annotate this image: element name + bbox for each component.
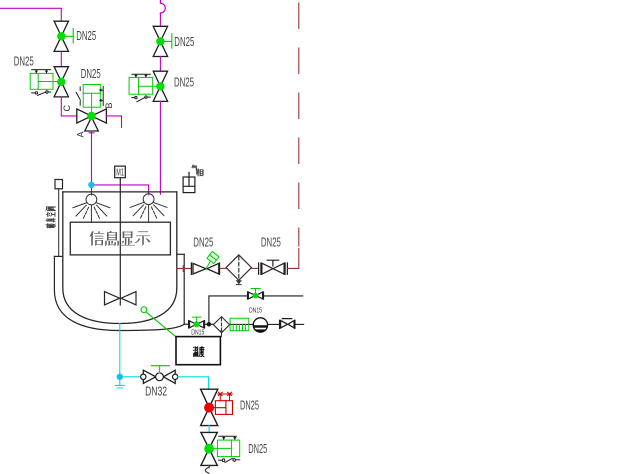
wire magenta stub right of three-way	[106, 116, 121, 128]
limit-switch marks above V2 box	[32, 70, 51, 74]
svg-text:DN15: DN15	[191, 327, 204, 336]
wire magenta feed from left edge	[0, 8, 61, 21]
node junction dot (cyan)	[117, 374, 123, 380]
wire black	[296, 323, 304, 325]
pipe cyan to DN32 valve	[123, 376, 141, 378]
svg-text:A: A	[76, 131, 86, 137]
svg-text:DN25: DN25	[76, 28, 96, 43]
wire	[159, 57, 161, 72]
valve DN32 (flanged ball valve, open circle)	[143, 370, 175, 383]
svg-text:DN25: DN25	[193, 235, 213, 250]
svg-text:DN25: DN25	[261, 235, 281, 250]
svg-text:DN25: DN25	[174, 34, 194, 49]
wire dark-red to riser	[288, 249, 299, 269]
leader circle on vessel bottom	[141, 307, 147, 313]
valve VB DN25 (manual globe with T handle)	[259, 260, 288, 274]
switch contact below VG box	[219, 458, 240, 462]
solenoid actuator box of valve V4	[129, 77, 157, 94]
svg-text:M1: M1	[116, 168, 124, 179]
vessel jacket	[54, 254, 184, 330]
vacuum-breaker nozzle box top-left	[55, 180, 63, 189]
limit-switch marks right of three-way box	[99, 87, 103, 106]
pipe black top loop	[209, 296, 303, 324]
pipe cyan to bottom valves	[178, 377, 209, 389]
svg-text:DN25: DN25	[240, 397, 259, 412]
heater strainer (green striped box)	[230, 318, 249, 331]
solenoid marks above VR box (red)	[218, 392, 232, 401]
wire dark-red	[252, 267, 259, 269]
wire green stub below valve VG	[208, 465, 210, 468]
svg-text:B: B	[104, 102, 114, 108]
valve VG DN25 (vertical bowtie, green ball)	[201, 432, 217, 465]
svg-text:DN25: DN25	[81, 66, 101, 81]
valve V3 DN25 (vertical bowtie, green ball)	[153, 26, 167, 56]
switch contact below V2 box	[32, 91, 51, 96]
limit-switch marks above VG box	[219, 436, 237, 439]
valve G1 (green ball with T handle)	[248, 292, 264, 299]
solenoid actuator box of three-way valve	[83, 85, 100, 112]
pipe break squiggle	[160, 0, 165, 14]
svg-text:DN25: DN25	[14, 53, 34, 68]
valve V5 (wafer valve with top bar)	[280, 319, 295, 329]
valve V3 handle tick	[164, 34, 172, 48]
svg-text:DN25: DN25	[174, 75, 194, 90]
wire magenta down into vessel	[159, 101, 161, 194]
limit-switch marks above V4 box	[132, 74, 151, 77]
label 气相	[192, 165, 198, 172]
wire	[61, 97, 77, 116]
solenoid actuator box of valve VG	[214, 440, 240, 457]
wire	[60, 51, 62, 66]
valve V4 DN25 (vertical bowtie, green ball)	[153, 71, 167, 101]
three-way valve TV1 (horizontal bowtie + bottom port, green ball)	[77, 109, 107, 131]
jacket inlet pipe (left)	[58, 189, 60, 257]
solenoid actuator box of valve V2	[30, 73, 57, 89]
wire black	[268, 323, 280, 325]
flow sight glass (circle, dark lower half with band)	[253, 318, 268, 333]
valve VA DN25 (horizontal bowtie with green diamond actuator)	[191, 263, 219, 274]
sprayer nozzle left	[73, 194, 110, 222]
vertical label 破真空阀	[46, 224, 56, 229]
switch contact left of three-way box	[76, 87, 80, 105]
svg-text:C: C	[62, 105, 72, 112]
temperature label box 温度	[176, 337, 220, 365]
filter F1 drain	[236, 281, 241, 285]
svg-text:DN25: DN25	[248, 441, 267, 456]
wire black through junction	[205, 323, 214, 325]
svg-text:DN32: DN32	[145, 383, 167, 398]
switch contact below V4 box	[132, 96, 151, 102]
wire magenta branch to sprayers	[92, 185, 149, 195]
wire magenta down from three-way	[89, 131, 94, 185]
riser dashed dark-red line	[298, 3, 300, 246]
pipe break squiggle bottom	[205, 465, 209, 474]
solenoid actuator box of valve VR (red)	[214, 401, 233, 415]
pipe dark-red from vessel nozzle	[177, 266, 191, 272]
information display box	[70, 222, 170, 255]
pipe jacket outlet to row 2	[184, 323, 188, 325]
valve V2 DN25 (vertical bowtie, green ball)	[54, 67, 68, 97]
valve G2 DN15 (green ball with T handle)	[189, 321, 205, 328]
wire cyan stub	[208, 426, 210, 433]
agitator shaft	[119, 178, 121, 305]
wire black	[230, 323, 254, 325]
wire dark-red	[220, 267, 226, 269]
filter F1 (diamond with dashed core)	[226, 255, 251, 280]
leader line green	[146, 312, 176, 337]
wire	[159, 14, 161, 26]
valve V1 handle tick	[65, 29, 73, 43]
node junction dot	[207, 322, 212, 327]
svg-text:DN15: DN15	[249, 305, 262, 314]
drain stub below dot	[115, 380, 124, 388]
valve V1 DN25 (vertical bowtie, green ball)	[54, 21, 68, 51]
node junction dot (cyan)	[88, 182, 94, 188]
vessel shell	[63, 192, 177, 324]
gas phase instrument symbol	[183, 172, 195, 192]
sprayer nozzle right	[130, 194, 167, 222]
agitator motor box M1	[115, 166, 126, 178]
filter F2 drain	[220, 331, 224, 333]
filter F2 (diamond with dashed core)	[213, 317, 229, 333]
green T handle of DN32 valve	[151, 366, 169, 373]
pipe cyan from vessel bottom	[119, 324, 121, 374]
agitator impeller	[105, 292, 137, 305]
green diamond actuator of valve VA	[206, 261, 210, 268]
valve VR DN25 (vertical bowtie, red ball)	[201, 389, 218, 425]
